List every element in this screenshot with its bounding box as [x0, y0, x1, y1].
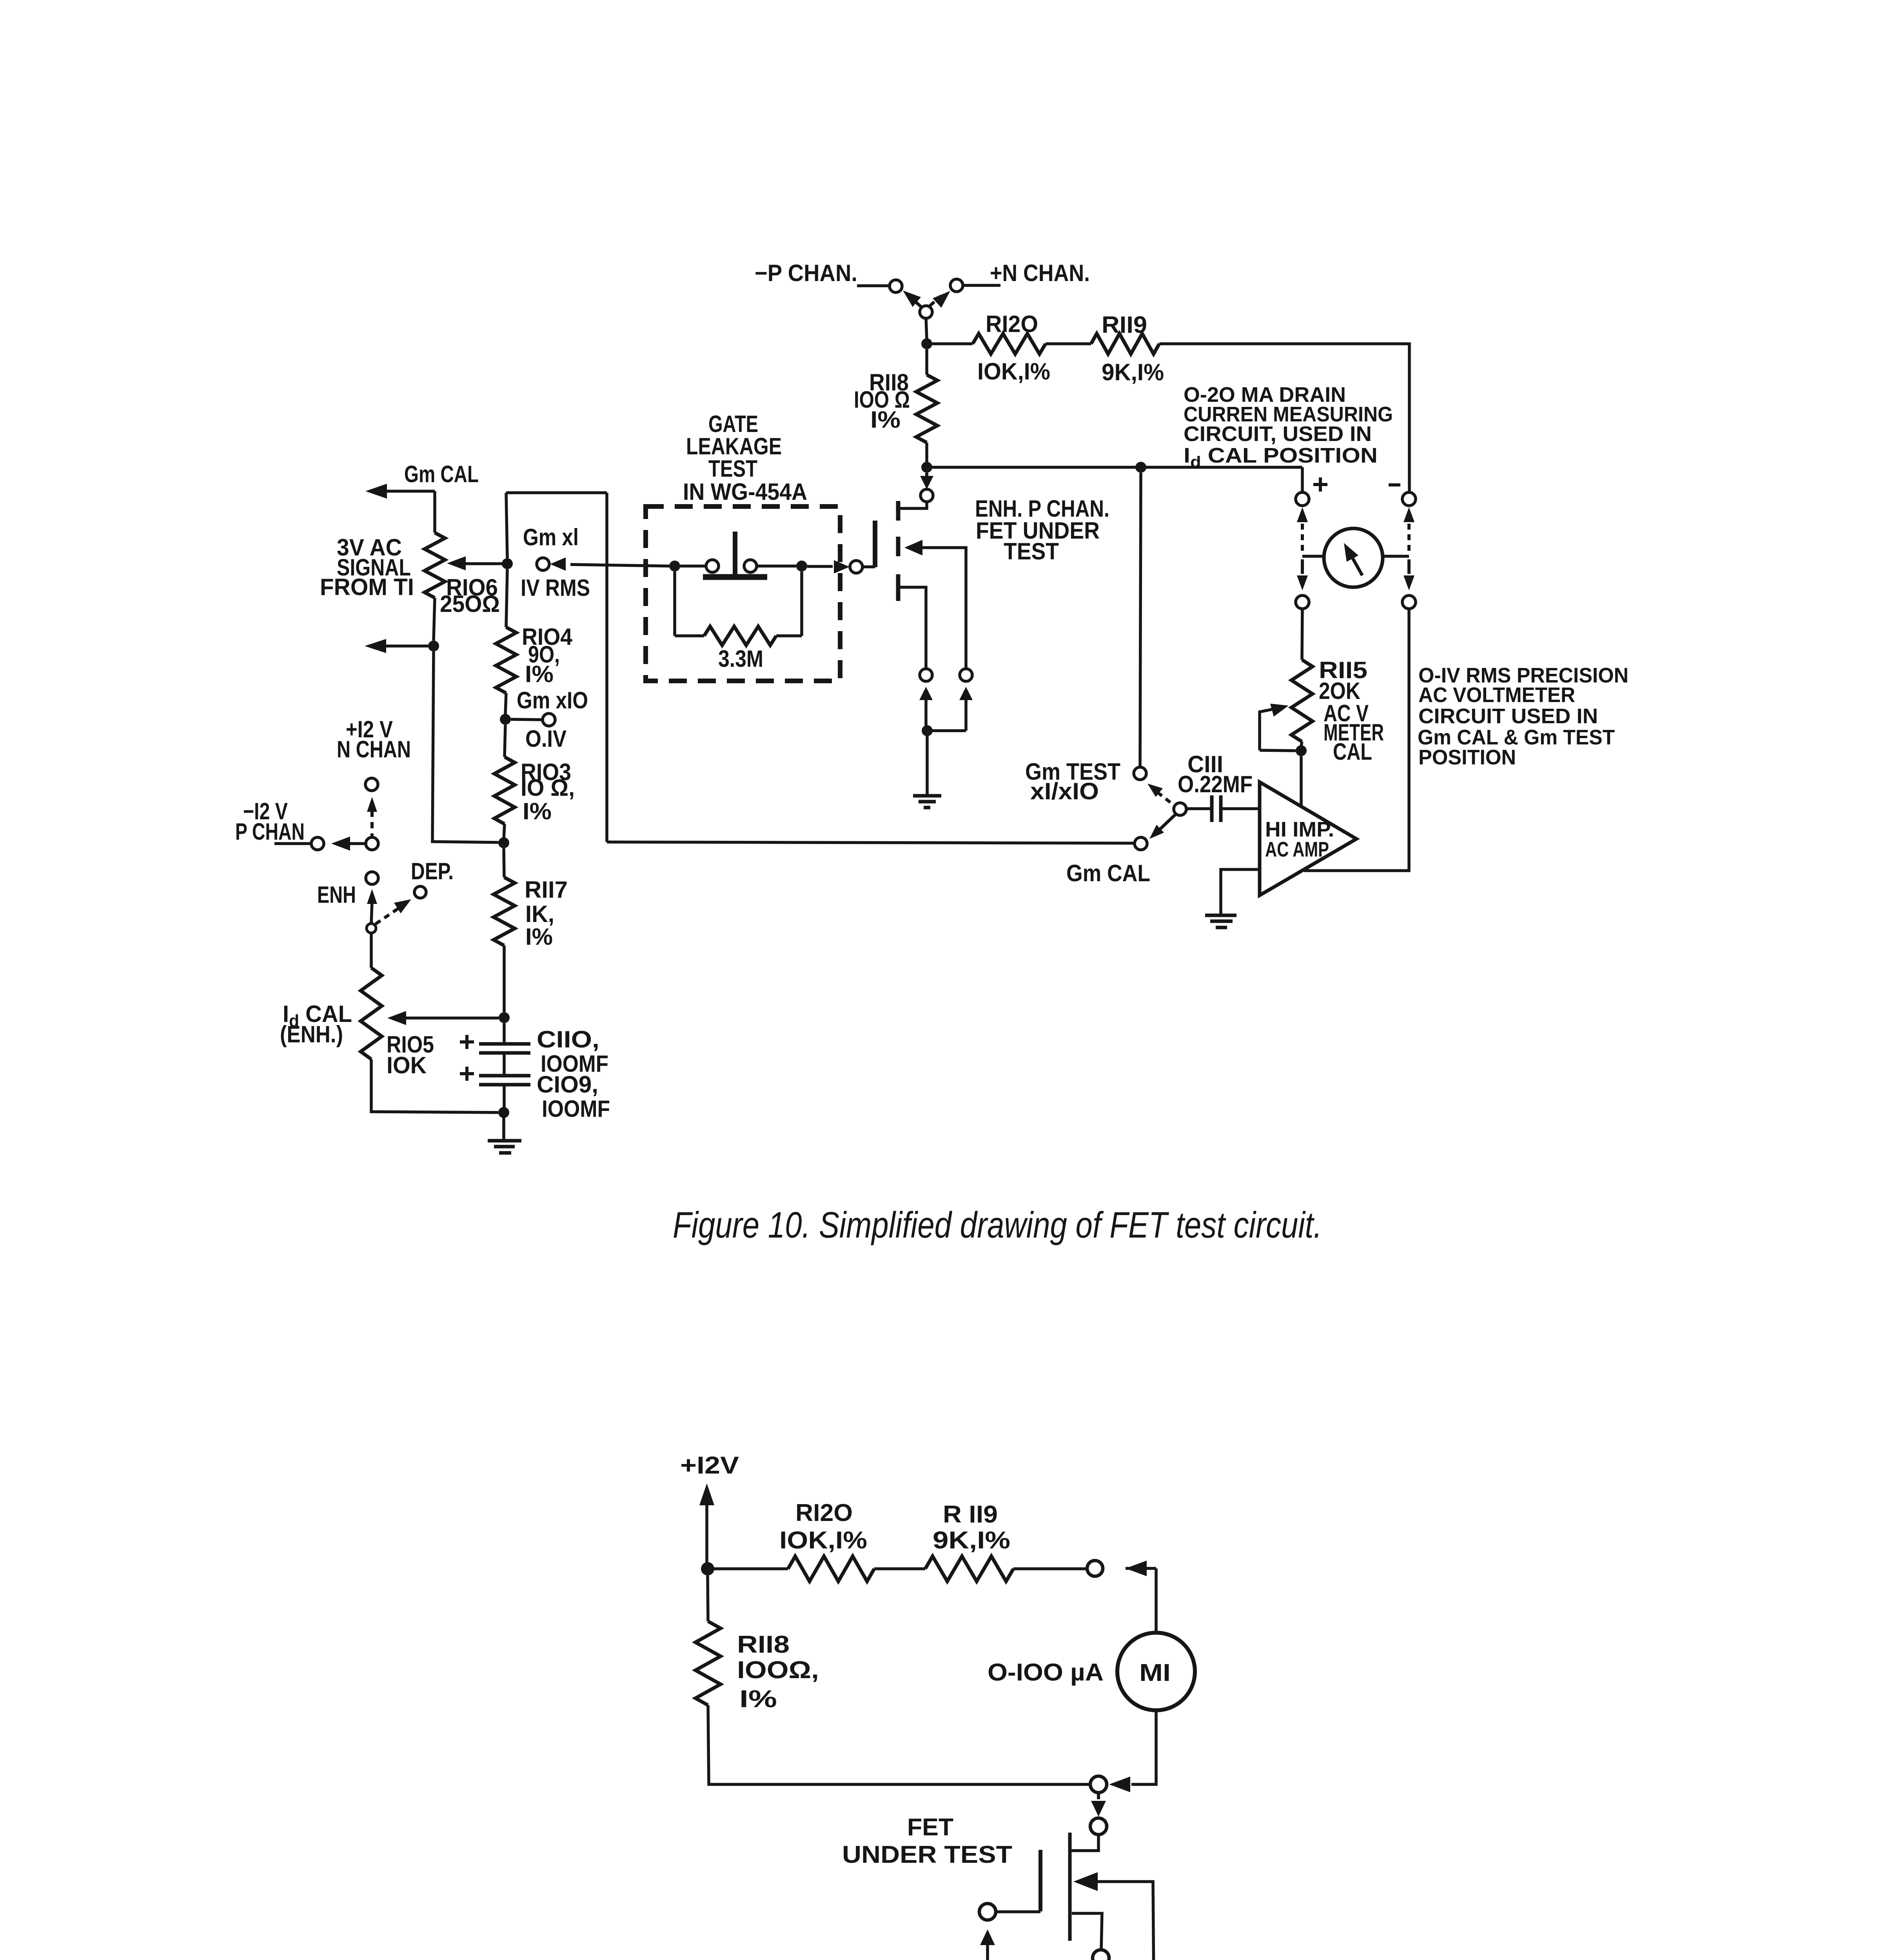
svg-text:Gm xl: Gm xl — [523, 524, 579, 550]
wire R105 bottom — [371, 1059, 498, 1112]
svg-text:CIRCUIT USED IN: CIRCUIT USED IN — [1418, 704, 1598, 728]
junction dot ground node — [498, 1107, 509, 1118]
meter M drain current — [1324, 528, 1383, 587]
arrow + plug lower — [1301, 559, 1304, 574]
capacitor C109 100MF — [479, 1074, 530, 1078]
wire loop left to R104 — [506, 569, 507, 627]
svg-text:IOK: IOK — [387, 1052, 427, 1078]
node -12V contact — [311, 837, 324, 850]
potentiometer R106 250 ohm — [425, 533, 445, 598]
wire R103 bottom — [504, 824, 505, 839]
svg-text:IOK,I%: IOK,I% — [779, 1527, 867, 1554]
resistor R104 90 1% — [496, 627, 516, 693]
transistor Q1 channel segments — [896, 501, 901, 521]
svg-text:CIRCUIT, USED IN: CIRCUIT, USED IN — [1184, 422, 1372, 446]
svg-text:RII9: RII9 — [1102, 312, 1147, 338]
junction dot R106 wiper node — [502, 558, 513, 569]
potentiometer R115 20K — [1291, 660, 1313, 742]
wire meter left — [1302, 555, 1325, 558]
svg-text:IK,: IK, — [525, 901, 554, 927]
wire to R120 — [708, 1567, 788, 1570]
svg-text:Gm xIO: Gm xIO — [517, 687, 588, 713]
resistor R119 9K 1% — [1091, 334, 1159, 354]
wire loop bottom long to Gm CAL contact — [607, 842, 1134, 843]
R106 wiper arrow — [447, 556, 466, 570]
transistor Q1 drain lead — [900, 502, 927, 508]
svg-text:I%: I% — [525, 924, 553, 950]
wire bypass right leg — [800, 572, 803, 636]
wire C111 to amp — [1221, 807, 1260, 810]
resistor R117 1K 1% — [494, 877, 515, 946]
arrow -12V wire — [331, 837, 350, 851]
svg-text:AC AMP: AC AMP — [1265, 838, 1329, 861]
svg-text:I%: I% — [870, 407, 901, 433]
arrow source plug — [919, 687, 933, 700]
arrow second output — [365, 639, 386, 653]
switch S1 arm to P (selected) — [910, 296, 921, 307]
svg-text:Id CAL POSITION: Id CAL POSITION — [1184, 444, 1378, 471]
meter M1 0-100uA — [1117, 1633, 1195, 1710]
wire gate ground leg — [988, 1944, 1094, 1960]
arrow into drain socket — [1126, 1561, 1147, 1576]
node source rail socket — [1090, 1776, 1107, 1793]
svg-text:I%: I% — [523, 798, 552, 824]
svg-text:CIIO,: CIIO, — [537, 1026, 599, 1053]
plus sign C109 — [460, 1072, 474, 1075]
arrow into Gm x1 contact — [550, 557, 566, 571]
wire R118 top — [708, 1575, 708, 1621]
wire C109 to ground node — [503, 1086, 506, 1108]
arrow ENH select — [367, 889, 377, 904]
svg-text:N CHAN: N CHAN — [337, 736, 411, 762]
wire R120-R119 fig11 — [874, 1567, 925, 1570]
wire Gm x10 stub — [511, 719, 543, 720]
wire to C110 — [503, 1023, 506, 1042]
junction dot top rail — [921, 338, 932, 349]
wire substrate lead — [922, 548, 966, 669]
wire R117 top — [504, 848, 504, 877]
node source plug socket — [920, 669, 932, 681]
node drain socket fig11 — [1087, 1561, 1103, 1576]
svg-text:R II9: R II9 — [943, 1501, 998, 1528]
resistor R120 fig11 — [788, 1556, 874, 1581]
wire meter right — [1383, 555, 1409, 558]
arrow into drain plug — [925, 473, 928, 477]
svg-text:Gm CAL: Gm CAL — [1066, 860, 1150, 886]
transistor Q2 substrate arrow — [1073, 1872, 1098, 1891]
resistor 3.3M — [704, 626, 776, 645]
node Gm TEST contact — [1134, 767, 1146, 780]
arrow gate plug fig11 — [980, 1929, 995, 1945]
transistor Q2 source lead — [1072, 1913, 1102, 1950]
arrow + plug upper (dashed) — [1297, 507, 1308, 522]
wire R119 to right rail corner — [1159, 344, 1409, 492]
arrow +12V select (dashed) — [367, 797, 377, 812]
wire loop left upper — [506, 493, 507, 558]
svg-text:RI2O: RI2O — [986, 311, 1038, 337]
node Gm x10 contact — [543, 713, 555, 726]
svg-text:Figure 10. Simplified drawing: Figure 10. Simplified drawing of FET tes… — [673, 1204, 1322, 1245]
arrow - plug lower — [1407, 559, 1411, 574]
junction dot left bus bottom — [498, 837, 509, 848]
junction dot drain rail right branch — [1135, 462, 1146, 473]
svg-text:CAL: CAL — [1333, 739, 1372, 765]
node meter - terminal — [1402, 492, 1416, 506]
junction dot second tap — [428, 641, 439, 652]
svg-text:ENH: ENH — [317, 882, 356, 908]
switch S2 push-button stem — [733, 532, 737, 575]
wire loop right side — [605, 493, 608, 842]
wire substrate lead fig11 — [1097, 1882, 1154, 1960]
switch S5 pole — [1174, 803, 1186, 815]
wire bypass to resistor — [675, 634, 704, 637]
wire drain rail corner down to + terminal — [1301, 467, 1304, 492]
svg-text:CIO9,: CIO9, — [537, 1071, 598, 1098]
switch S5 arm to Gm TEST (dashed) — [1157, 792, 1171, 803]
transistor Q1 gate lead — [862, 565, 875, 568]
wire pole to C111 — [1186, 807, 1212, 810]
junction dot Gm x10 node — [500, 714, 511, 725]
svg-text:IOOΩ,: IOOΩ, — [737, 1657, 819, 1684]
transistor Q1 gate bar — [873, 521, 877, 567]
svg-text:IV RMS: IV RMS — [521, 575, 590, 601]
capacitor C110 100MF — [479, 1042, 530, 1046]
wire down to meter — [1155, 1568, 1158, 1632]
node + lower socket — [1296, 595, 1309, 609]
ground under C109 — [488, 1139, 521, 1143]
capacitor C111 0.22MF — [1210, 795, 1214, 822]
wire down to R106 — [433, 491, 436, 533]
wire Gm TEST rail — [1140, 473, 1141, 767]
junction dot drain rail — [921, 462, 932, 473]
svg-text:I%: I% — [739, 1686, 777, 1713]
node DEP contact — [414, 886, 426, 898]
wire R118 bottom — [925, 443, 928, 463]
potentiometer R105 10K Id CAL — [361, 968, 382, 1059]
svg-text:RII7: RII7 — [525, 877, 568, 903]
node -P CHAN contact — [890, 280, 902, 292]
svg-text:I%: I% — [525, 661, 554, 687]
wire left bus down — [432, 652, 498, 842]
transistor Q2 gate bar — [1039, 1850, 1042, 1911]
svg-text:25OΩ: 25OΩ — [440, 591, 500, 617]
wire gate wire from leakage box with arrow — [807, 565, 833, 568]
switch S1 pole — [920, 306, 932, 318]
node source plug fig11 — [1093, 1950, 1109, 1960]
svg-text:O-IOO µA: O-IOO µA — [988, 1659, 1104, 1686]
wire meter to corner — [1131, 1710, 1156, 1784]
svg-text:+I2V: +I2V — [680, 1452, 739, 1479]
wire bypass left leg — [673, 572, 676, 636]
junction dot box left — [669, 561, 680, 572]
wire loop top — [506, 491, 607, 494]
resistor R120 10K 1% — [973, 334, 1046, 354]
switch S1 arm to N (dashed) — [930, 296, 941, 306]
wire -12V lead — [274, 842, 311, 845]
svg-text:xI/xIO: xI/xIO — [1030, 778, 1099, 804]
ground under FET — [913, 794, 941, 798]
svg-text:P CHAN: P CHAN — [235, 818, 305, 845]
plus sign meter — [1313, 483, 1327, 486]
wire R119 to socket — [1013, 1567, 1087, 1570]
svg-text:IN WG-454A: IN WG-454A — [683, 479, 807, 505]
svg-text:TEST: TEST — [1004, 538, 1059, 564]
svg-text:9K,I%: 9K,I% — [1102, 359, 1164, 385]
wire substrate to source junction — [927, 729, 966, 732]
junction dot box right — [796, 561, 807, 572]
switch S2 push-button bar — [703, 574, 767, 580]
wire amp output to R115 node — [1300, 756, 1303, 806]
arrow Gm CAL output — [365, 484, 387, 499]
wire R104 to Gm x10 node — [505, 693, 506, 714]
wire dot to R120 — [932, 342, 973, 345]
transistor Q1 source lead — [900, 587, 926, 669]
svg-text:3.3M: 3.3M — [718, 646, 763, 672]
switch S4 arm to DEP (dashed) — [376, 906, 401, 924]
svg-text:O.IV: O.IV — [525, 726, 566, 752]
wire contact to right dot — [757, 564, 796, 568]
wire into box — [570, 564, 669, 566]
power arrow +12V — [699, 1483, 714, 1505]
svg-text:FROM TI: FROM TI — [320, 574, 414, 600]
node gate socket fig11 — [979, 1904, 996, 1920]
svg-text:RI2O: RI2O — [795, 1499, 853, 1526]
meter needle — [1352, 557, 1362, 575]
wire ground stem — [502, 1112, 505, 1140]
resistor R103 10 ohm 1% — [494, 757, 515, 824]
node +N CHAN contact — [950, 279, 963, 292]
node Gm x1 contact — [537, 558, 549, 570]
svg-text:(ENH.): (ENH.) — [280, 1021, 343, 1047]
R115 wiper — [1260, 750, 1296, 751]
switch S4 pole — [367, 924, 376, 933]
svg-text:RII8: RII8 — [737, 1631, 790, 1658]
junction dot source-substrate — [922, 725, 933, 736]
wire C110 to C109 — [503, 1054, 506, 1074]
transistor Q2 channel — [1068, 1833, 1072, 1941]
wire +N CHAN lead — [963, 284, 1000, 287]
minus sign meter — [1389, 483, 1400, 486]
arrow into source socket rail — [1109, 1777, 1130, 1792]
node - lower socket — [1402, 595, 1416, 609]
switch S2 push-button contacts — [706, 560, 719, 572]
wire right rail down to amp output — [1304, 609, 1409, 871]
svg-text:POSITION: POSITION — [1418, 746, 1516, 769]
transistor Q2 gate lead — [996, 1910, 1040, 1913]
arrow - plug upper (dashed) — [1403, 507, 1414, 522]
svg-text:IO Ω,: IO Ω, — [521, 775, 575, 801]
transistor Q1 substrate arrow — [904, 540, 922, 555]
svg-text:Gm CAL: Gm CAL — [404, 461, 479, 487]
wire R117 bottom — [503, 946, 506, 1012]
ground under amp — [1205, 914, 1236, 917]
op-amp U1 HI IMP AC AMP — [1260, 782, 1356, 895]
transistor Q2 drain lead — [1071, 1835, 1098, 1851]
svg-text:TEST: TEST — [708, 456, 757, 482]
switch S3 pole — [366, 837, 378, 850]
wire resistor to right leg — [776, 634, 802, 637]
node +12V contact — [365, 778, 378, 791]
wire dot to switch contact — [680, 564, 706, 568]
svg-text:+N CHAN.: +N CHAN. — [990, 260, 1090, 286]
dashed box GATE LEAKAGE TEST — [646, 506, 840, 681]
wire -P CHAN lead — [857, 284, 890, 287]
R105 wiper arrow — [387, 1011, 406, 1025]
node substrate plug socket — [960, 669, 972, 681]
svg-text:DEP.: DEP. — [411, 858, 454, 884]
wire amp ground lead — [1221, 869, 1260, 915]
resistor R118 100 ohm 1% — [916, 375, 937, 443]
resistor R118 fig11 — [695, 1621, 721, 1705]
node Gm CAL contact — [1135, 837, 1147, 850]
svg-text:9K,I%: 9K,I% — [933, 1527, 1010, 1554]
wire R120 to R119 — [1046, 342, 1091, 345]
svg-text:O.22MF: O.22MF — [1178, 771, 1253, 797]
svg-text:MI: MI — [1139, 1659, 1171, 1686]
wire R118 top — [925, 349, 928, 375]
junction dot +12V node — [701, 1562, 714, 1575]
svg-text:UNDER TEST: UNDER TEST — [842, 1841, 1012, 1868]
wire S4 pole to R105 — [370, 933, 373, 968]
wire to ground — [926, 731, 929, 795]
wire long return to R118 — [708, 1705, 1090, 1784]
node ENH contact — [366, 872, 378, 884]
svg-text:FET: FET — [907, 1814, 953, 1841]
arrow substrate plug — [959, 687, 973, 700]
resistor R119 fig11 — [925, 1556, 1013, 1581]
switch S5 arm to Gm CAL — [1160, 815, 1175, 829]
junction dot R115 bottom — [1296, 745, 1307, 756]
wire R106 lower — [434, 598, 435, 641]
node drain plug fig11 — [1090, 1818, 1107, 1835]
wire drain rail — [927, 466, 1302, 469]
wire to R103 — [505, 725, 505, 757]
svg-text:IOK,I%: IOK,I% — [977, 358, 1050, 385]
wire pole to node — [926, 318, 927, 339]
junction dot Id CAL node — [499, 1012, 510, 1023]
node gate plug socket — [850, 561, 862, 573]
svg-text:IOOMF: IOOMF — [542, 1096, 610, 1122]
node meter + terminal — [1296, 492, 1309, 506]
svg-text:AC VOLTMETER: AC VOLTMETER — [1418, 683, 1575, 707]
svg-text:−P CHAN.: −P CHAN. — [755, 260, 857, 286]
arrow drain plug fig11 — [1097, 1793, 1100, 1799]
plus sign C110 — [460, 1040, 474, 1044]
node drain plug socket — [921, 489, 933, 502]
